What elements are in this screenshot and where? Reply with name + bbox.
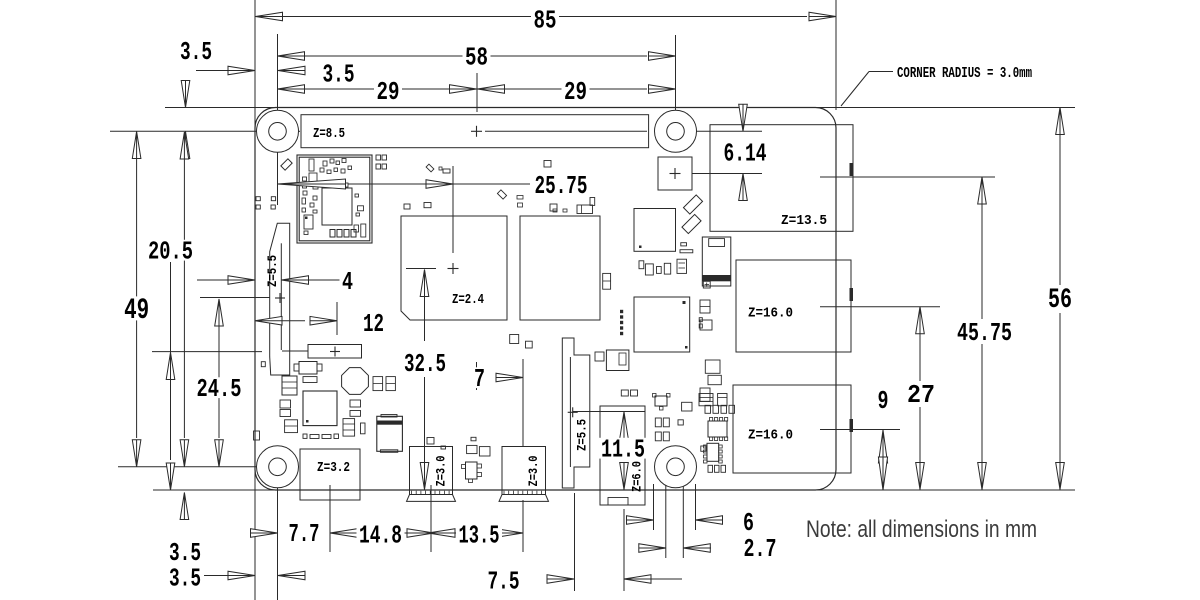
svg-text:7.7: 7.7 — [289, 519, 320, 549]
svg-text:Z=3.0: Z=3.0 — [526, 455, 541, 486]
svg-text:29: 29 — [564, 77, 587, 107]
svg-text:85: 85 — [534, 6, 557, 36]
svg-text:13.5: 13.5 — [459, 521, 500, 551]
svg-text:32.5: 32.5 — [404, 349, 446, 379]
svg-text:3.5: 3.5 — [323, 60, 355, 90]
svg-text:45.75: 45.75 — [957, 318, 1012, 348]
svg-text:49: 49 — [124, 294, 149, 328]
svg-text:Z=6.0: Z=6.0 — [630, 461, 645, 492]
svg-text:Z=3.0: Z=3.0 — [434, 455, 449, 486]
svg-text:27: 27 — [907, 380, 935, 410]
svg-text:20.5: 20.5 — [148, 237, 193, 267]
svg-text:56: 56 — [1048, 285, 1072, 316]
svg-text:14.8: 14.8 — [359, 521, 402, 551]
svg-text:CORNER RADIUS = 3.0mm: CORNER RADIUS = 3.0mm — [897, 66, 1032, 82]
svg-text:Z=16.0: Z=16.0 — [748, 306, 793, 322]
svg-text:9: 9 — [878, 386, 889, 416]
svg-text:11.5: 11.5 — [601, 435, 645, 465]
svg-text:7.5: 7.5 — [488, 567, 520, 597]
svg-text:Z=2.4: Z=2.4 — [452, 292, 484, 308]
svg-text:29: 29 — [377, 77, 400, 107]
svg-text:Note: all dimensions in mm: Note: all dimensions in mm — [806, 516, 1037, 543]
svg-text:Z=16.0: Z=16.0 — [748, 428, 793, 444]
svg-text:Z=5.5: Z=5.5 — [265, 255, 280, 287]
svg-text:3.5: 3.5 — [180, 37, 212, 67]
svg-text:25.75: 25.75 — [535, 171, 588, 201]
svg-text:2.7: 2.7 — [744, 534, 777, 564]
svg-text:12: 12 — [363, 309, 384, 339]
svg-text:58: 58 — [465, 43, 488, 73]
svg-text:6.14: 6.14 — [724, 139, 767, 169]
svg-text:Z=13.5: Z=13.5 — [781, 213, 827, 229]
svg-text:7: 7 — [474, 364, 485, 394]
svg-text:Z=8.5: Z=8.5 — [313, 126, 345, 142]
svg-text:3.5: 3.5 — [169, 564, 201, 594]
svg-text:4: 4 — [342, 267, 353, 297]
svg-text:Z=5.5: Z=5.5 — [575, 419, 590, 451]
svg-text:24.5: 24.5 — [197, 374, 242, 404]
svg-text:Z=3.2: Z=3.2 — [317, 460, 350, 476]
